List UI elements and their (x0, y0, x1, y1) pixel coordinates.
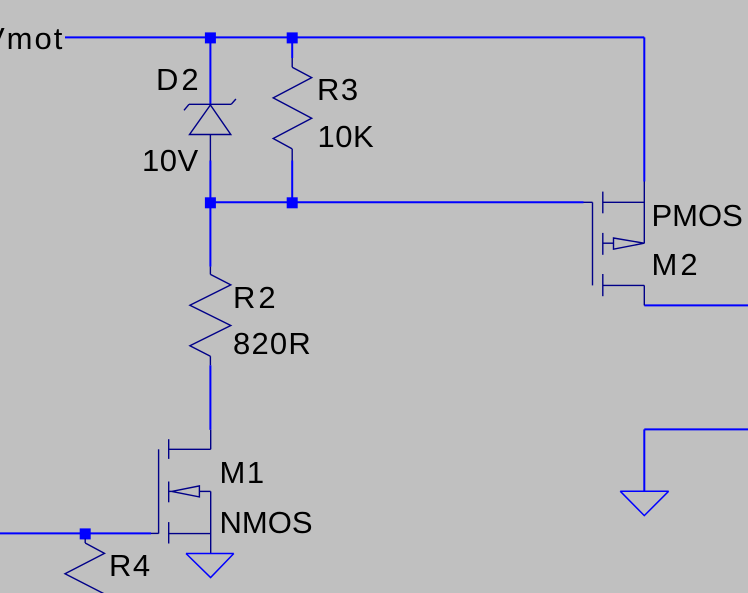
wire R3 top (291, 37, 293, 58)
resistor R3 (273, 58, 312, 161)
junction at Vmot/R3 (287, 32, 298, 43)
pmos transistor M2 (584, 182, 645, 306)
channel bar segments (168, 439, 170, 459)
body arrow pointing left (172, 486, 200, 497)
gate pin (584, 201, 593, 203)
wire right branch vertical to ground (643, 429, 645, 491)
wire right drop to M2 drain (643, 37, 645, 181)
svg-text:820R: 820R (233, 326, 312, 361)
wire R2 to M1 drain (209, 365, 211, 430)
gate bar (158, 449, 160, 533)
gate pin (151, 532, 159, 534)
wire right branch horizontal (644, 428, 748, 430)
body arrow pointing right (603, 242, 614, 244)
wire D2 top (209, 37, 211, 103)
ground at right branch (620, 491, 669, 515)
drain pin from R2 (210, 430, 212, 449)
wire M2 source to right edge (644, 304, 748, 306)
svg-text:R4: R4 (109, 548, 152, 583)
source stub (169, 533, 211, 535)
nmos transistor M1 (151, 430, 211, 554)
wire R2 top (209, 202, 211, 266)
svg-text:10K: 10K (318, 119, 375, 154)
wire M1 gate rail (0, 532, 151, 534)
resistor R4 (65, 539, 105, 593)
junction at middle rail/R3 (287, 197, 298, 208)
source lead down to ground (210, 491, 212, 553)
junction at Vmot/D2 (205, 32, 216, 43)
drain stub (603, 201, 645, 203)
svg-text:M2: M2 (652, 247, 701, 282)
drain stub (169, 448, 211, 450)
svg-text:D2: D2 (156, 62, 202, 97)
drain lead from top rail (643, 182, 645, 244)
ground under M1 (186, 554, 234, 578)
junction at gate rail/R4 (80, 528, 91, 539)
svg-text:10V: 10V (142, 143, 199, 178)
source lead down (643, 285, 645, 305)
resistor R2 (190, 267, 231, 366)
svg-text:M1: M1 (220, 455, 266, 490)
junction at middle rail/D2/R2 (205, 197, 216, 208)
zener diode D2 (184, 99, 236, 161)
svg-text:Vmot: Vmot (0, 21, 64, 56)
source stub (603, 284, 645, 286)
gate bar (592, 202, 594, 285)
wire top rail Vmot (65, 36, 644, 38)
svg-text:PMOS: PMOS (652, 198, 743, 233)
svg-text:NMOS: NMOS (220, 505, 313, 540)
svg-text:R2: R2 (233, 280, 279, 315)
wire D2 bottom (209, 161, 211, 203)
wire middle rail to M2 gate (210, 201, 583, 203)
channel bar segments (602, 192, 604, 214)
svg-text:R3: R3 (317, 72, 360, 107)
wire R3 bottom (291, 161, 293, 203)
